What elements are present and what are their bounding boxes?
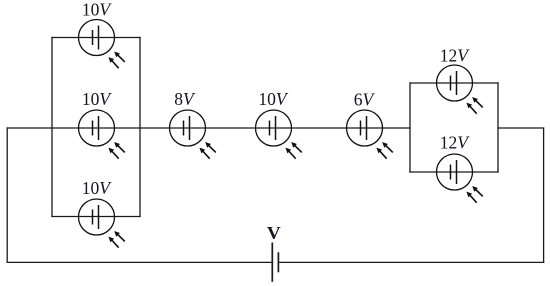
svg-text:10V: 10V: [258, 89, 289, 109]
photovoltaic cell PV4 (8V): [170, 110, 216, 159]
svg-text:8V: 8V: [174, 89, 196, 109]
svg-text:10V: 10V: [82, 178, 113, 198]
wire: left parallel box right edge: [139, 38, 141, 217]
svg-text:12V: 12V: [440, 133, 471, 153]
photovoltaic cell PV1 (10V): [79, 20, 125, 69]
wire: right box top branch: [410, 82, 498, 84]
battery V: [272, 243, 278, 282]
photovoltaic cell PV5 (10V): [256, 110, 302, 159]
photovoltaic cell PV6 (6V): [347, 110, 393, 159]
wire: main horizontal bus (left part): [7, 127, 410, 129]
photovoltaic cell PV2 (10V): [79, 110, 125, 159]
wire: right parallel box left edge: [409, 83, 411, 172]
wire: bottom return (right of battery): [278, 261, 543, 263]
photovoltaic cell PV7 (12V): [437, 65, 483, 114]
wire: left box bottom branch: [52, 216, 140, 218]
svg-text:10V: 10V: [82, 89, 113, 109]
wire: right parallel box right edge: [497, 83, 499, 172]
wire: main bus right of parallel box: [498, 127, 544, 129]
wire: right box bottom branch: [410, 171, 498, 173]
wire: left box top branch: [52, 37, 140, 39]
svg-text:6V: 6V: [354, 90, 376, 110]
wire: bottom return (left of battery): [7, 261, 272, 263]
wire: left parallel box left edge: [51, 38, 53, 217]
svg-text:10V: 10V: [82, 0, 113, 20]
wire: left outer vertical: [6, 128, 8, 262]
wire: right outer vertical: [543, 128, 545, 262]
photovoltaic cell PV8 (12V): [437, 154, 483, 203]
photovoltaic cell PV3 (10V): [79, 199, 125, 248]
svg-text:12V: 12V: [440, 46, 471, 66]
svg-text:V: V: [267, 223, 281, 243]
